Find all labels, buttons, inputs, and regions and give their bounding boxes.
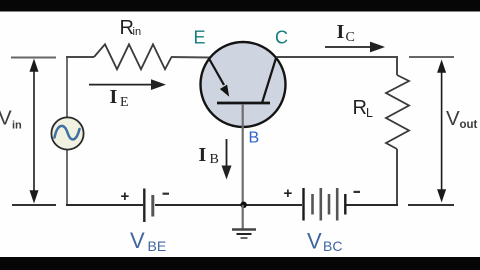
IB current arrow <box>226 139 228 168</box>
battery VBC plate 4 short <box>328 194 331 215</box>
svg-text:BE: BE <box>148 238 167 254</box>
wire: left vertical (source branch) <box>66 57 68 119</box>
svg-text:C: C <box>346 30 355 45</box>
node Vout bottom reference tick <box>408 204 454 206</box>
battery VBE long plate <box>143 189 145 223</box>
wire: bottom left segment <box>66 204 143 206</box>
wire: RL bottom lead <box>396 149 398 205</box>
wire: bottom right segment <box>346 204 398 206</box>
wire: resistor to emitter <box>171 56 210 59</box>
ground lead <box>242 205 244 229</box>
svg-text:I: I <box>337 21 345 43</box>
wire: top left segment <box>66 56 94 58</box>
svg-text:L: L <box>366 106 373 120</box>
svg-text:V: V <box>130 228 145 253</box>
resistor Rin <box>94 44 172 69</box>
svg-text:in: in <box>12 120 22 132</box>
node Vin top reference tick <box>11 57 56 59</box>
transistor base bar <box>217 102 270 105</box>
Vout measurement double arrow <box>438 62 445 200</box>
svg-text:B: B <box>249 130 260 147</box>
minus sign VBC <box>354 191 361 193</box>
top letterbox bar <box>0 0 480 12</box>
Vin measurement double arrow <box>31 61 38 201</box>
AC source V1 <box>51 117 83 149</box>
svg-text:I: I <box>110 86 118 108</box>
transistor collector lead <box>262 57 277 104</box>
node Vin bottom reference tick <box>12 204 56 206</box>
IC current arrow <box>325 46 373 48</box>
AC sine wave <box>55 126 80 140</box>
svg-text:B: B <box>210 152 219 167</box>
minus sign VBE <box>163 193 170 195</box>
battery VBC plate 1 long <box>302 188 304 221</box>
svg-text:in: in <box>133 26 142 38</box>
svg-text:+: + <box>284 185 293 202</box>
svg-text:E: E <box>194 28 206 48</box>
wire: base lead down <box>242 104 244 204</box>
svg-text:E: E <box>120 95 129 110</box>
svg-text:V: V <box>446 107 460 130</box>
battery VBC plate 2 short <box>311 194 314 215</box>
battery VBC plate 3 long <box>319 188 322 221</box>
resistor RL <box>386 75 409 149</box>
svg-text:out: out <box>460 119 478 131</box>
svg-text:R: R <box>353 97 367 119</box>
bottom letterbox bar <box>0 257 480 270</box>
transistor Q1 body <box>201 42 286 127</box>
svg-text:I: I <box>199 144 207 166</box>
battery VBE short plate <box>151 195 154 217</box>
battery VBC plate 5 long <box>336 188 339 221</box>
svg-text:+: + <box>121 188 130 205</box>
svg-text:C: C <box>275 28 288 48</box>
junction node at base <box>240 202 247 209</box>
wire: collector to RL corner <box>277 57 398 75</box>
wire: bottom middle segment <box>155 204 302 206</box>
transistor emitter lead with arrow <box>209 59 224 86</box>
battery VBC plate 6 short <box>344 194 346 215</box>
ground symbol <box>232 228 256 231</box>
svg-text:V: V <box>0 107 12 130</box>
svg-text:BC: BC <box>323 238 342 254</box>
IE current arrow <box>89 84 154 86</box>
node Vout top reference tick <box>409 56 454 58</box>
svg-text:V: V <box>307 229 322 254</box>
